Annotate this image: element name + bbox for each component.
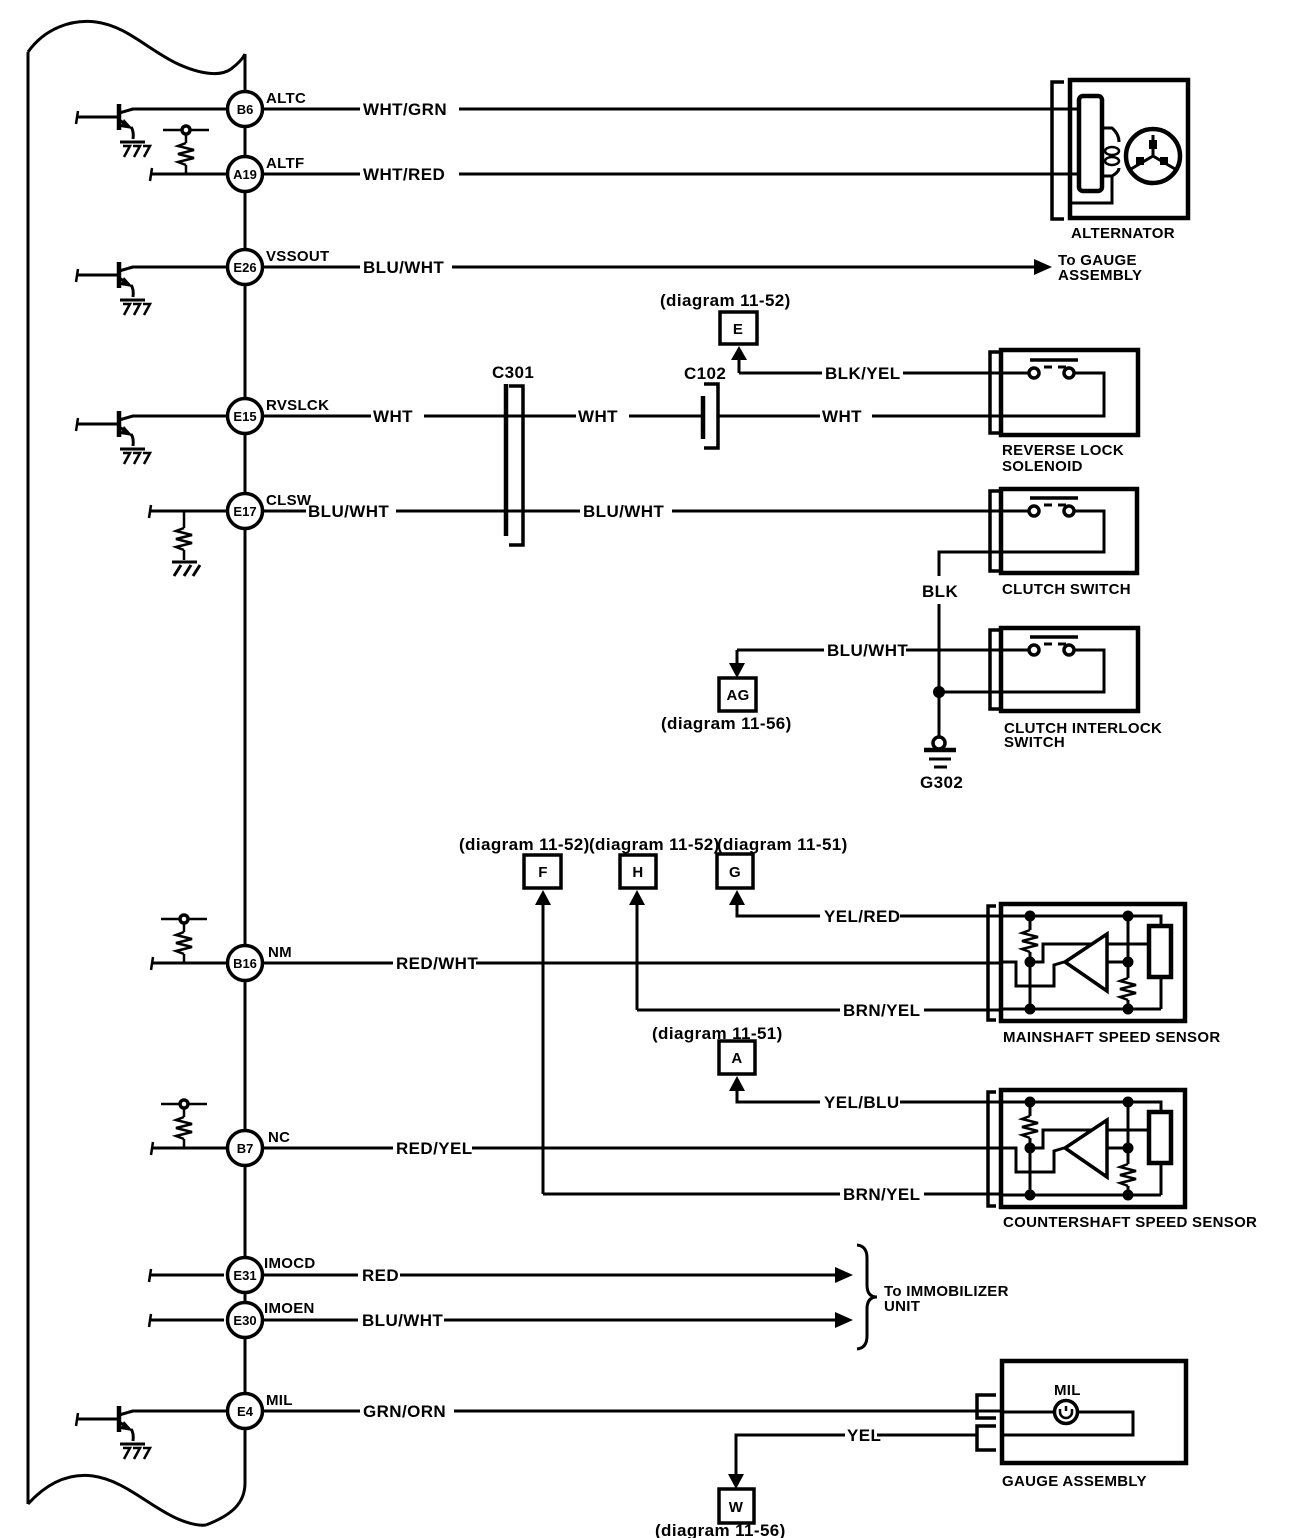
svg-text:UNIT: UNIT — [884, 1298, 920, 1315]
switch contacts clutch switch — [1001, 498, 1078, 516]
svg-text:BLU/WHT: BLU/WHT — [363, 258, 444, 277]
svg-text:F: F — [538, 864, 547, 881]
svg-text:C301: C301 — [492, 363, 534, 382]
wire E15 collector row — [132, 415, 227, 418]
svg-text:(diagram 11-51): (diagram 11-51) — [717, 835, 848, 854]
wire tick E30 — [149, 1314, 151, 1327]
wire solenoid output loop — [1001, 373, 1104, 416]
clutch interlock switch case — [1001, 628, 1138, 711]
svg-text:MIL: MIL — [266, 1392, 293, 1409]
svg-text:E15: E15 — [233, 409, 256, 424]
svg-text:REVERSE LOCK: REVERSE LOCK — [1002, 442, 1124, 459]
svg-text:YEL/RED: YEL/RED — [824, 907, 900, 926]
svg-text:BLU/WHT: BLU/WHT — [827, 641, 908, 660]
svg-text:WHT: WHT — [578, 407, 618, 426]
arrow into W — [728, 1474, 744, 1489]
svg-text:BLU/WHT: BLU/WHT — [308, 502, 389, 521]
wire YEL/RED G to mainshaft speed sensor — [737, 903, 1001, 916]
connector box H — [620, 855, 656, 888]
svg-text:RED/WHT: RED/WHT — [396, 954, 478, 973]
svg-text:YEL/BLU: YEL/BLU — [824, 1093, 900, 1112]
wire interlock output loop — [939, 650, 1104, 692]
svg-text:BRN/YEL: BRN/YEL — [843, 1185, 920, 1204]
wire BLU/WHT E17 to C301 — [263, 510, 580, 513]
svg-text:ALTERNATOR: ALTERNATOR — [1071, 225, 1175, 242]
node B16 — [228, 946, 263, 981]
wire E26 collector row — [132, 266, 227, 269]
wire BLU/WHT clutch interlock to AG — [737, 649, 1001, 652]
wire tick E17 — [149, 505, 151, 518]
svg-text:WHT/RED: WHT/RED — [363, 165, 445, 184]
arrow into H — [629, 890, 645, 905]
connector box A — [719, 1041, 755, 1074]
wire RED to immobilizer unit — [263, 1274, 838, 1277]
wire drop to AG — [736, 650, 739, 664]
svg-text:W: W — [729, 1499, 744, 1516]
svg-text:GAUGE ASSEMBLY: GAUGE ASSEMBLY — [1002, 1473, 1147, 1490]
connector box F — [524, 855, 561, 888]
svg-text:MIL: MIL — [1054, 1382, 1081, 1399]
wire BLK clutch switch to ground — [939, 552, 1001, 737]
wire E30 row — [150, 1319, 224, 1322]
svg-text:RED/YEL: RED/YEL — [396, 1139, 472, 1158]
svg-text:G: G — [729, 864, 741, 881]
svg-text:A19: A19 — [233, 167, 257, 182]
arrow RED to immobilizer — [835, 1267, 853, 1283]
svg-text:BLU/WHT: BLU/WHT — [362, 1311, 443, 1330]
wire WHT E15 to C301 — [263, 415, 576, 418]
svg-text:NM: NM — [268, 944, 292, 961]
connector bracket reverse lock solenoid — [990, 352, 1000, 433]
wire YEL/BLU A to countershaft speed sensor — [737, 1089, 1001, 1102]
wire WHT C301 to C102 — [629, 415, 701, 418]
svg-text:MAINSHAFT SPEED SENSOR: MAINSHAFT SPEED SENSOR — [1003, 1029, 1220, 1046]
svg-text:YEL: YEL — [847, 1426, 881, 1445]
arrow BLU/WHT to immobilizer — [835, 1312, 853, 1328]
brace to immobilizer unit — [857, 1245, 877, 1349]
svg-text:(diagram 11-56): (diagram 11-56) — [661, 714, 792, 733]
svg-text:RED: RED — [362, 1266, 399, 1285]
mainshaft speed sensor — [988, 904, 1185, 1021]
svg-text:H: H — [632, 864, 643, 881]
connector brackets gauge assembly — [977, 1395, 996, 1418]
svg-text:WHT/GRN: WHT/GRN — [363, 100, 447, 119]
node E15 — [228, 399, 263, 434]
ground for E17 resistor — [172, 562, 200, 576]
transistor Q4 (MIL driver) — [76, 1406, 150, 1459]
svg-text:(diagram 11-52): (diagram 11-52) — [459, 835, 590, 854]
svg-text:GRN/ORN: GRN/ORN — [363, 1402, 446, 1421]
countershaft speed sensor — [988, 1090, 1185, 1207]
transistor Q2 (VSSOUT driver) — [76, 262, 150, 315]
switch contacts clutch interlock switch — [1001, 637, 1078, 655]
wire YEL gauge to W — [736, 1435, 977, 1476]
connector bracket clutch switch — [990, 491, 1000, 571]
svg-text:B6: B6 — [237, 102, 254, 117]
wire B6 collector row — [132, 108, 227, 111]
node A19 — [228, 157, 263, 192]
wire tick A19 — [150, 168, 152, 181]
svg-text:RVSLCK: RVSLCK — [266, 397, 329, 414]
wire F vertical — [542, 903, 545, 1194]
gauge assembly case — [1002, 1361, 1186, 1463]
svg-text:(diagram 11-56): (diagram 11-56) — [655, 1521, 786, 1538]
wire B16 row — [152, 962, 227, 965]
wire GRN/ORN to gauge assembly — [263, 1410, 1002, 1413]
svg-text:ALTF: ALTF — [266, 155, 304, 172]
wire WHT/GRN to alternator — [263, 108, 1070, 111]
svg-text:CLUTCH SWITCH: CLUTCH SWITCH — [1002, 581, 1131, 598]
pull-up resistor at B7 — [161, 1100, 207, 1148]
svg-text:E26: E26 — [233, 260, 256, 275]
clutch switch case — [1001, 489, 1137, 573]
wire tick B7 — [151, 1142, 153, 1155]
wire tick E31 — [149, 1269, 151, 1282]
node E4 — [228, 1394, 263, 1429]
svg-text:(diagram 11-52): (diagram 11-52) — [660, 291, 791, 310]
wire ECU bus vertical — [206, 54, 245, 1525]
pull-up resistor at B16 — [161, 915, 207, 963]
svg-text:BLU/WHT: BLU/WHT — [583, 502, 664, 521]
voltage regulator — [1079, 96, 1102, 191]
svg-text:(diagram 11-52): (diagram 11-52) — [589, 835, 720, 854]
resistor pull-down at E17 — [183, 511, 186, 560]
rotor field winding — [1102, 128, 1119, 142]
MIL indicator bulb — [1055, 1401, 1078, 1424]
node E30 — [228, 1303, 263, 1338]
svg-text:BRN/YEL: BRN/YEL — [843, 1001, 920, 1020]
wire E31 row — [150, 1274, 224, 1277]
connector bracket clutch interlock switch — [990, 630, 1000, 709]
svg-text:E31: E31 — [233, 1268, 256, 1283]
svg-text:C102: C102 — [684, 364, 726, 383]
svg-text:CLSW: CLSW — [266, 492, 312, 509]
wire BLU/WHT to gauge assembly — [263, 266, 1036, 269]
transistor Q3 (RVSLCK driver) — [76, 411, 150, 464]
node B6 — [228, 92, 263, 127]
torn page edge bottom — [28, 1475, 206, 1525]
wire left border of ECU — [27, 52, 30, 1504]
svg-text:G302: G302 — [920, 773, 963, 792]
connector box AG — [719, 678, 756, 711]
arrow to gauge assembly — [1034, 259, 1052, 275]
node E31 — [228, 1258, 263, 1293]
svg-text:WHT: WHT — [822, 407, 862, 426]
svg-text:BLK/YEL: BLK/YEL — [825, 364, 901, 383]
wire RED/WHT to mainshaft speed sensor — [263, 962, 1001, 965]
svg-text:A: A — [731, 1050, 742, 1067]
node B7 — [228, 1131, 263, 1166]
ground G302 — [933, 737, 945, 749]
svg-text:AG: AG — [726, 687, 749, 704]
svg-text:NC: NC — [268, 1129, 290, 1146]
arrow into AG — [729, 663, 745, 678]
svg-text:IMOCD: IMOCD — [264, 1255, 316, 1272]
svg-text:ALTC: ALTC — [266, 90, 306, 107]
svg-text:SWITCH: SWITCH — [1004, 734, 1065, 751]
stator windings Y — [1131, 135, 1175, 169]
torn page edge top — [28, 21, 245, 73]
wire BLK/YEL to reverse lock solenoid — [739, 372, 1001, 375]
transistor Q1 (ALTC driver) — [76, 104, 150, 157]
wire H vertical — [636, 903, 639, 1010]
wire RED/YEL to countershaft speed sensor — [263, 1147, 1001, 1150]
wire WHT C102 to reverse lock solenoid — [719, 415, 1001, 418]
wire into regulator — [1070, 109, 1079, 174]
node junction BLK / clutch interlock — [933, 686, 945, 698]
wire E17 row — [150, 510, 227, 513]
wire clutch switch output loop — [1001, 511, 1104, 552]
svg-text:ASSEMBLY: ASSEMBLY — [1058, 267, 1142, 284]
arrow into E — [731, 346, 747, 360]
svg-text:COUNTERSHAFT SPEED SENSOR: COUNTERSHAFT SPEED SENSOR — [1003, 1214, 1257, 1231]
pull-up resistor at A19 — [163, 126, 209, 174]
wire BRN/YEL H to mainshaft speed sensor — [637, 1009, 1001, 1012]
svg-text:E30: E30 — [233, 1313, 256, 1328]
wire tick B16 — [151, 957, 153, 970]
wire BLU/WHT to immobilizer unit — [263, 1319, 838, 1322]
wire E4 collector row — [132, 1410, 227, 1413]
svg-text:B7: B7 — [237, 1141, 254, 1156]
svg-text:IMOEN: IMOEN — [264, 1300, 315, 1317]
connector box W — [719, 1489, 754, 1523]
arrow into A — [729, 1076, 745, 1091]
svg-text:B16: B16 — [233, 956, 257, 971]
wire MIL bulb loop — [1002, 1412, 1133, 1435]
svg-text:WHT: WHT — [373, 407, 413, 426]
connector box E — [720, 312, 757, 344]
svg-text:E: E — [733, 321, 743, 338]
wire B7 row — [152, 1147, 227, 1150]
switch contacts reverse lock solenoid — [1001, 360, 1078, 378]
arrow into F — [535, 890, 551, 905]
wire WHT/RED to alternator — [263, 173, 1070, 176]
alternator case — [1070, 80, 1188, 218]
stator generator circle — [1126, 129, 1180, 183]
svg-text:BLK: BLK — [922, 582, 958, 601]
wire BLU/WHT C301 to clutch switch — [672, 510, 1001, 513]
wire A19 row — [151, 173, 227, 176]
wire BRN/YEL F to countershaft speed sensor — [543, 1193, 1001, 1196]
svg-text:E17: E17 — [233, 504, 256, 519]
node E17 — [228, 494, 263, 529]
node E26 — [228, 250, 263, 285]
svg-text:SOLENOID: SOLENOID — [1002, 458, 1083, 475]
svg-text:VSSOUT: VSSOUT — [266, 248, 329, 265]
svg-text:E4: E4 — [237, 1404, 254, 1419]
arrow into G — [729, 890, 745, 905]
connector box G — [717, 854, 753, 888]
connector bracket alternator — [1052, 82, 1064, 219]
reverse lock solenoid case — [1001, 350, 1138, 435]
